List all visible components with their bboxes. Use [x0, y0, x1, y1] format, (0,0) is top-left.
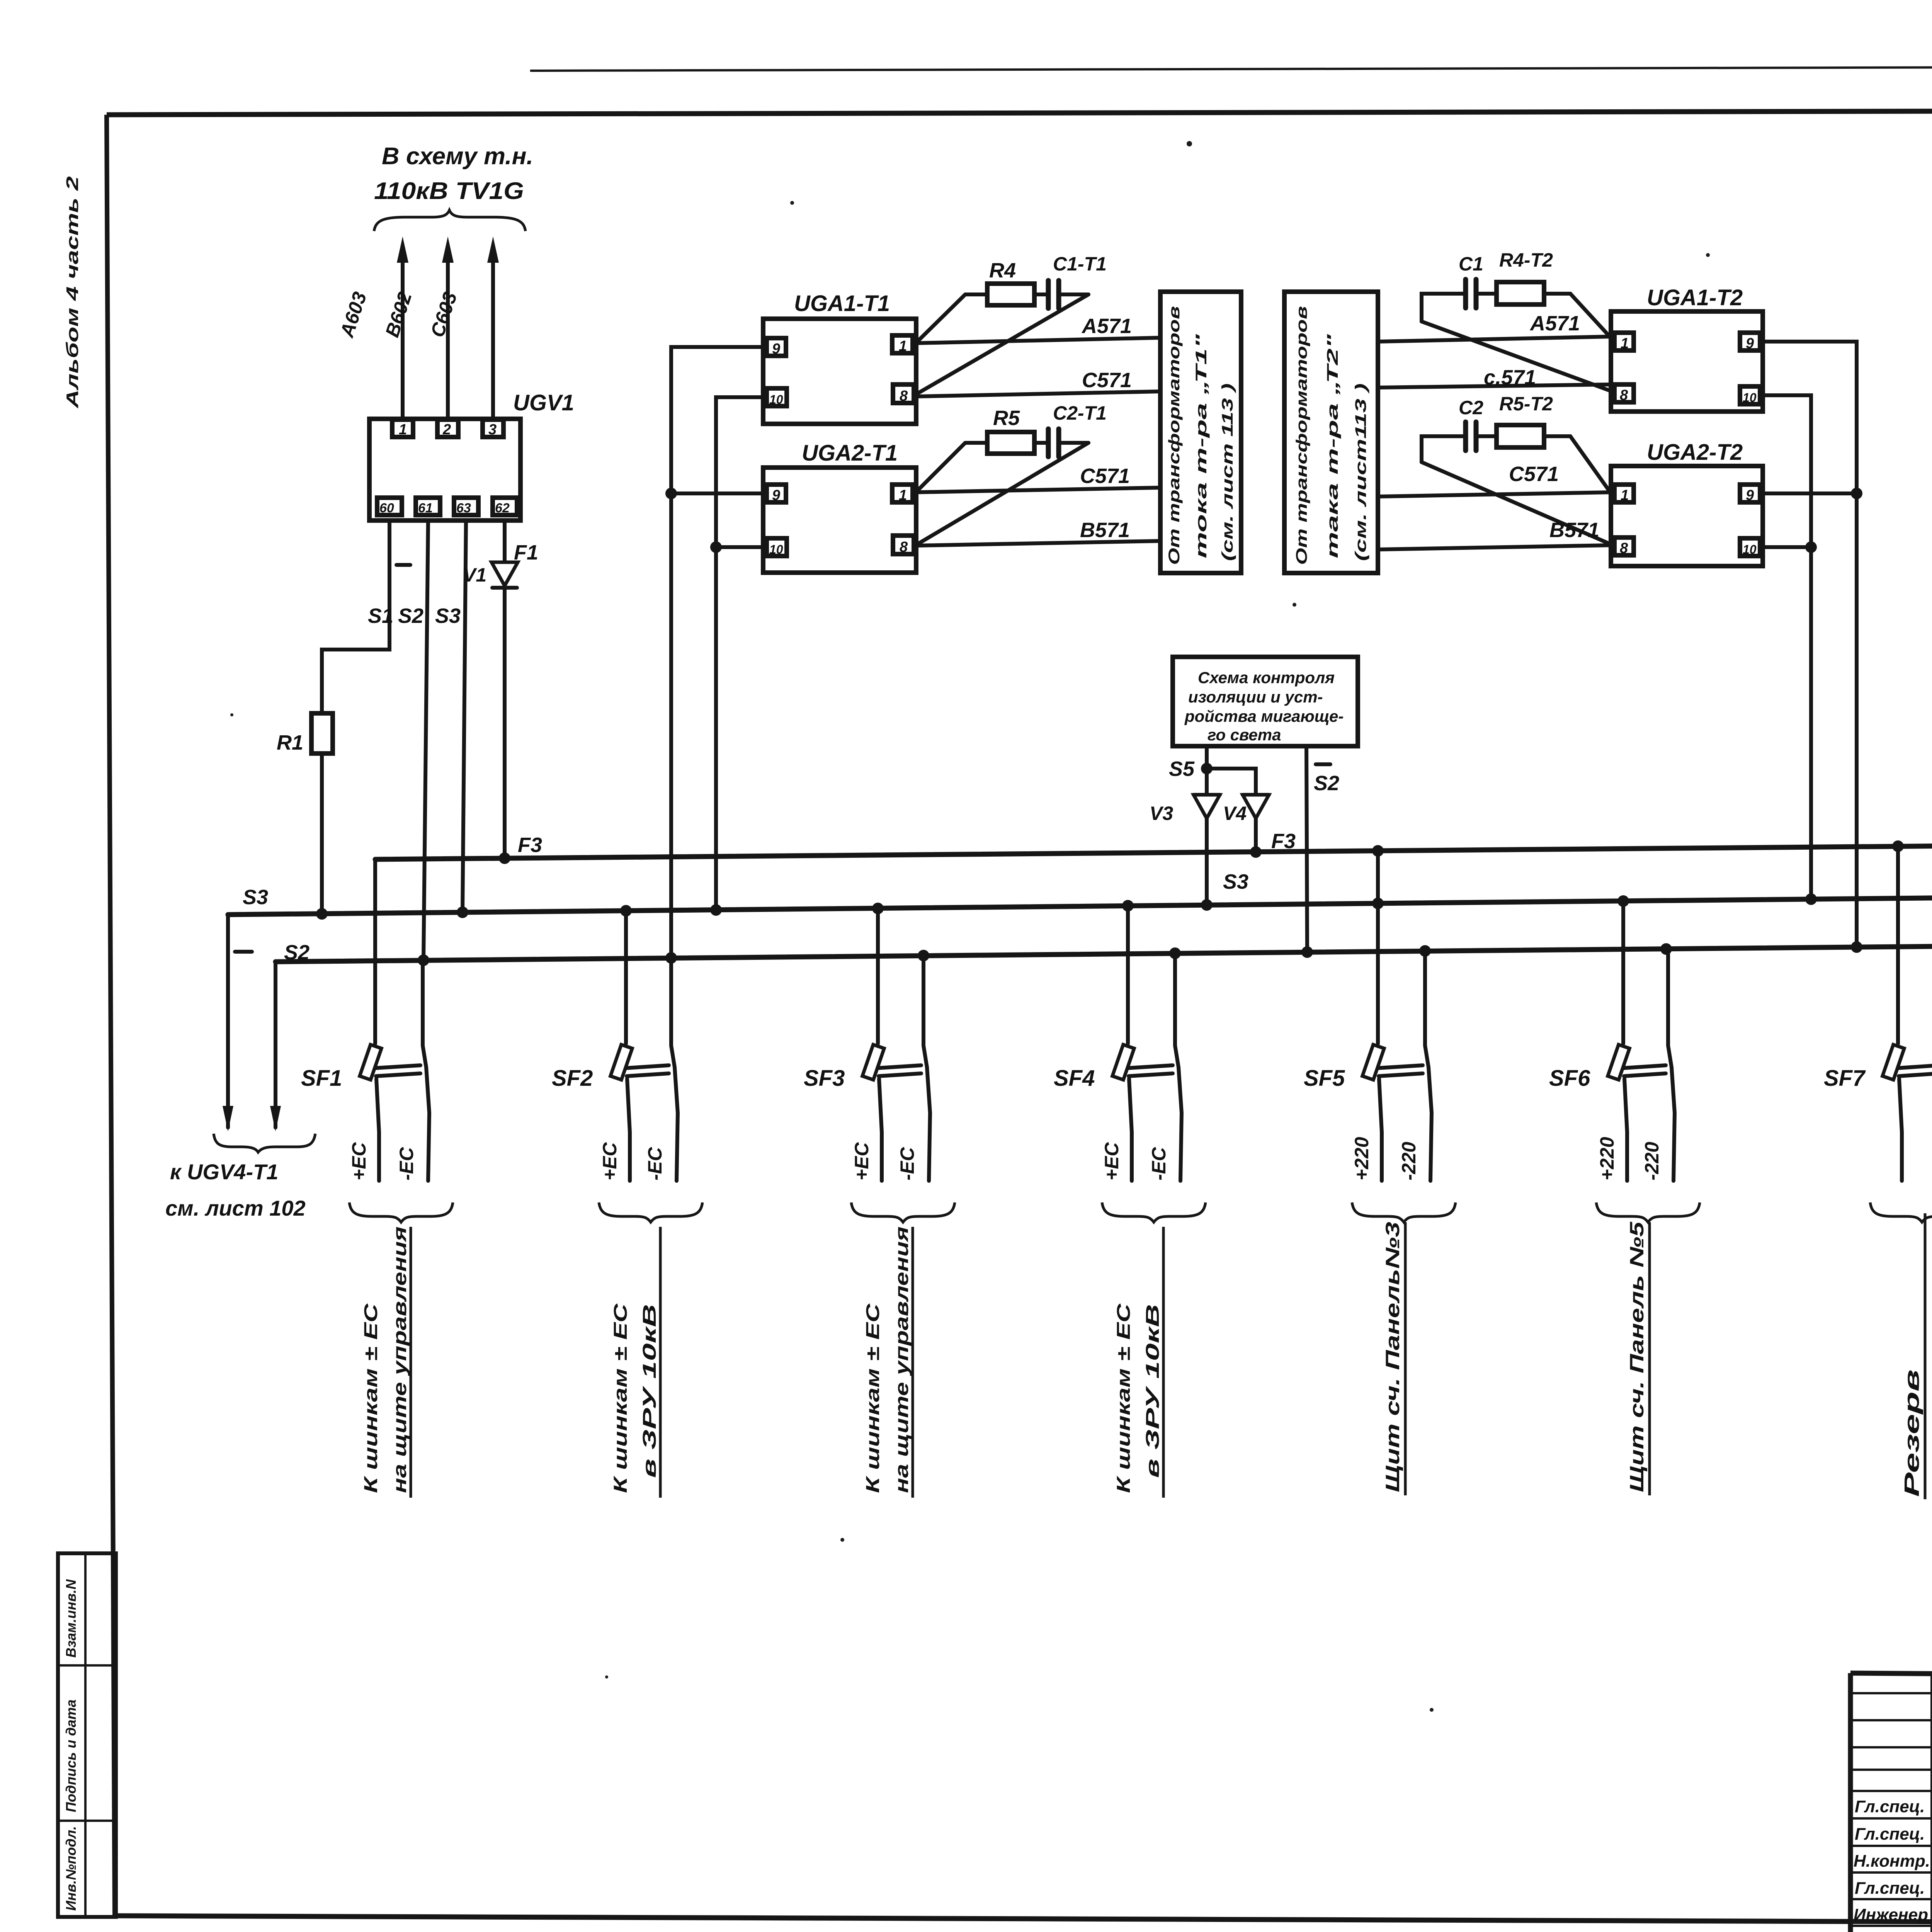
svg-text:V4: V4: [1223, 803, 1247, 824]
-S2 bus left end down to arrow: [274, 962, 277, 1128]
relay block UGA1-T2: [1611, 311, 1763, 412]
wire UGA1-T1 pin9 left: [671, 347, 767, 958]
svg-text:Гл.спец.: Гл.спец.: [1855, 1879, 1925, 1898]
resistor R5: [987, 432, 1034, 454]
svg-text:8: 8: [1620, 387, 1628, 403]
circuit breaker SF6: [1549, 901, 1675, 1181]
wire C2 left corner: [1422, 436, 1466, 462]
node: UGA-T1 pin10 wire joins bus S3: [710, 904, 722, 916]
svg-text:UGA2-Т2: UGA2-Т2: [1647, 440, 1743, 465]
wire UGA2-T2 pin10 right: [1760, 545, 1811, 549]
svg-text:-ЕС: -ЕС: [396, 1147, 417, 1180]
wire R1 to S3 bus: [320, 753, 324, 914]
bus S3: [228, 894, 1932, 915]
node: SF5 right wire joins bus -S2: [1419, 945, 1431, 957]
circuit breaker SF4: [1054, 906, 1182, 1181]
node S5 junction: [1201, 763, 1213, 774]
node: UGV1 pin63 wire joins bus S3: [457, 906, 468, 918]
svg-text:С2-Т1: С2-Т1: [1053, 402, 1107, 424]
wire UGA1-T2 pin10 right: [1760, 395, 1811, 899]
svg-text:61: 61: [418, 501, 433, 515]
node: SF7 left wire joins bus F3: [1892, 840, 1904, 852]
svg-text:С1: С1: [1459, 253, 1483, 275]
svg-text:в ЗРУ 10кВ: в ЗРУ 10кВ: [1143, 1304, 1163, 1478]
svg-text:Щит сч. Панель №5: Щит сч. Панель №5: [1626, 1221, 1648, 1492]
wire R5 to C2-T1: [1034, 441, 1048, 445]
svg-text:+ЕС: +ЕС: [348, 1142, 370, 1180]
circuit breaker SF5: [1304, 851, 1432, 1181]
relay block UGA2-T2: [1611, 466, 1763, 566]
svg-text:9: 9: [772, 341, 780, 357]
svg-text:9: 9: [1746, 487, 1754, 503]
brace under SF4: [1102, 1202, 1206, 1222]
svg-text:+ЕС: +ЕС: [1101, 1142, 1122, 1180]
resistor R4: [987, 284, 1034, 305]
wire V3 to S3 bus: [1205, 818, 1209, 905]
circuit breaker SF2: [552, 911, 678, 1181]
svg-text:-220: -220: [1641, 1142, 1663, 1180]
svg-text:8: 8: [900, 539, 908, 555]
svg-text:С2: С2: [1459, 397, 1483, 418]
svg-text:Щит сч. Панель№3: Щит сч. Панель№3: [1382, 1222, 1403, 1492]
node: SF2 left wire joins bus S3: [620, 905, 632, 917]
wire B602 up from UGV1 pin2: [446, 258, 450, 419]
svg-text:R4: R4: [989, 259, 1016, 282]
wire V4 to F3 bus: [1254, 818, 1258, 852]
wire A603 up from UGV1 pin1: [401, 258, 405, 419]
node: SF6 right wire joins bus -S2: [1660, 943, 1672, 955]
svg-text:8: 8: [900, 388, 908, 404]
svg-text:(см. лист 113 ): (см. лист 113 ): [1219, 383, 1236, 561]
svg-text:3: 3: [488, 422, 497, 438]
diode V3: [1150, 795, 1220, 824]
label -S2 left: [235, 941, 310, 964]
brace under SF7: [1870, 1202, 1932, 1222]
node: S2bar wire joins bus -S2: [1301, 946, 1313, 958]
wire pin62 down through V1 to F3 bus: [503, 520, 507, 858]
svg-text:на щите управления: на щите управления: [892, 1226, 912, 1493]
brace under left arrows: [214, 1134, 315, 1152]
svg-text:+ЕС: +ЕС: [851, 1142, 872, 1180]
node: SF4 right wire joins bus -S2: [1169, 947, 1181, 959]
diagonal C2-T1 to UGA2-T1 pin8: [915, 443, 1088, 546]
svg-text:R1: R1: [277, 731, 303, 754]
svg-text:Гл.спец.: Гл.спец.: [1855, 1797, 1925, 1816]
svg-text:тока т-ра „Т1": тока т-ра „Т1": [1193, 333, 1210, 558]
signature table verticals: [1930, 1674, 1932, 1932]
svg-text:Подпись и дата: Подпись и дата: [63, 1699, 79, 1812]
svg-text:SF7: SF7: [1824, 1066, 1866, 1091]
wire from pin 60 with jog to R1: [322, 520, 389, 713]
svg-text:в ЗРУ 10кВ: в ЗРУ 10кВ: [639, 1304, 660, 1478]
wire C603 up from UGV1 pin3: [491, 258, 495, 419]
capacitor C1: [1466, 279, 1497, 308]
svg-text:S1: S1: [368, 604, 393, 628]
svg-text:10: 10: [1743, 391, 1757, 405]
svg-text:S3: S3: [1223, 870, 1248, 893]
svg-text:От трансформаторов: От трансформаторов: [1166, 306, 1183, 565]
net B571 to UGA2-T2 pin8: [1378, 545, 1611, 549]
wire UGA2-T1 pin10 left: [716, 545, 767, 549]
svg-text:1: 1: [399, 422, 407, 438]
svg-text:Схема контроля: Схема контроля: [1198, 668, 1335, 687]
svg-text:Взам.инв.N: Взам.инв.N: [63, 1579, 79, 1658]
svg-text:Н.контр.: Н.контр.: [1854, 1852, 1930, 1871]
svg-text:S3: S3: [243, 886, 268, 909]
brace under SF5: [1352, 1202, 1456, 1222]
svg-text:V1: V1: [463, 564, 486, 586]
wire UGA1-T1 pin10 left: [716, 397, 767, 910]
brace under SF6: [1596, 1202, 1700, 1222]
svg-text:(см. лист113 ): (см. лист113 ): [1352, 383, 1369, 561]
diode V1: [463, 562, 518, 588]
svg-text:Инженер: Инженер: [1854, 1905, 1928, 1924]
net C571 from UGA1-T1 pin8: [916, 391, 1160, 396]
circuit breaker SF7: [1824, 846, 1932, 1181]
svg-text:R4-Т2: R4-Т2: [1499, 249, 1553, 271]
relay block UGA2-T1: [763, 468, 916, 573]
node: UGA-T2 pin10 wire joins bus S3: [1805, 893, 1817, 905]
label S2 with overbar middle: [1314, 764, 1339, 795]
wire branch to V4: [1207, 769, 1256, 795]
wire UGA2-T1 pin9 left: [671, 492, 767, 495]
svg-text:F3: F3: [518, 833, 542, 857]
node: SF3 left wire joins bus S3: [872, 903, 884, 914]
junction pin10 wires: [710, 541, 722, 553]
resistor R4-T2: [1497, 282, 1544, 304]
svg-text:V3: V3: [1150, 803, 1173, 824]
bus -S2: [276, 943, 1932, 962]
junction pin9 wires: [665, 488, 677, 499]
svg-text:В схему т.н.: В схему т.н.: [382, 143, 533, 170]
junction pin10 wires T2: [1805, 541, 1817, 553]
svg-text:В571: В571: [1549, 519, 1599, 542]
wire R5-T2 right + diagonal to UGA2-T2 pin1: [1544, 436, 1610, 492]
svg-text:А571: А571: [1081, 315, 1132, 338]
node: V1 wire joins bus F3: [499, 852, 510, 864]
node: SF4 left wire joins bus S3: [1122, 900, 1134, 912]
box От трансформаторов тока т-ра Т1: [1160, 292, 1241, 573]
node: UGA-T2 pin9 wire joins bus -S2: [1851, 941, 1862, 953]
svg-text:+220: +220: [1596, 1137, 1618, 1180]
svg-text:К шинкам ± ЕС: К шинкам ± ЕС: [863, 1303, 883, 1493]
svg-text:UGA1-Т2: UGA1-Т2: [1647, 285, 1743, 310]
svg-text:UGA1-Т1: UGA1-Т1: [794, 291, 890, 316]
svg-text:1: 1: [899, 487, 907, 503]
junction pin9 wires T2: [1851, 488, 1862, 499]
S3 bus left end down to arrow: [226, 915, 230, 1128]
svg-text:2: 2: [442, 422, 451, 438]
net A571 to UGA1-T2 pin1: [1378, 337, 1611, 342]
node: SF6 left wire joins bus S3: [1617, 895, 1629, 907]
svg-text:К шинкам ± ЕС: К шинкам ± ЕС: [1114, 1303, 1134, 1493]
svg-text:110кВ TV1G: 110кВ TV1G: [374, 178, 524, 204]
svg-text:60: 60: [379, 501, 394, 515]
svg-text:1: 1: [899, 338, 907, 354]
diagonal pin1 to R4 branch: [917, 294, 965, 342]
svg-text:изоляции и уст-: изоляции и уст-: [1188, 688, 1323, 706]
brace under SF2: [599, 1202, 702, 1222]
svg-text:10: 10: [1743, 543, 1757, 556]
diagonal UGA2-T1 pin1 to R5 branch: [917, 443, 965, 491]
label minus over S2: [396, 563, 410, 567]
node: UGV1 pin61 / SF1 right wire joins bus -S2: [418, 954, 429, 966]
svg-text:63: 63: [456, 501, 471, 515]
capacitor C2-T1: [1048, 429, 1088, 457]
brace over TV1G arrows: [374, 210, 526, 231]
net A571 from UGA1-T1 pin1: [916, 338, 1160, 343]
svg-text:С571: С571: [1082, 369, 1132, 392]
wire UGA1-T2 pin9 right: [1760, 342, 1857, 947]
brace under SF3: [851, 1202, 955, 1222]
wire UGA2-T2 pin9 right: [1760, 492, 1857, 495]
capacitor C2: [1466, 422, 1497, 451]
svg-text:S2: S2: [398, 604, 423, 628]
signature table rows: [1850, 1692, 1932, 1694]
svg-text:От трансформаторов: От трансформаторов: [1293, 306, 1310, 565]
svg-text:R5-Т2: R5-Т2: [1499, 393, 1553, 415]
net C571 to UGA2-T2 pin1: [1378, 492, 1611, 497]
svg-text:ройства мигающе-: ройства мигающе-: [1184, 707, 1344, 725]
diagonal C1-T1 to pin8: [915, 294, 1088, 395]
svg-text:SF4: SF4: [1054, 1066, 1095, 1091]
title block: [1850, 1673, 1932, 1932]
brace under SF1: [349, 1202, 453, 1222]
svg-text:SF5: SF5: [1304, 1066, 1345, 1091]
svg-text:+ЕС: +ЕС: [599, 1142, 621, 1180]
node: SF3 right wire joins bus -S2: [918, 950, 929, 961]
svg-text:С1-Т1: С1-Т1: [1053, 253, 1107, 275]
svg-text:10: 10: [769, 393, 783, 406]
svg-text:см. лист 102: см. лист 102: [165, 1196, 306, 1220]
node: V4 wire joins bus F3: [1250, 846, 1262, 858]
svg-text:-ЕС: -ЕС: [1148, 1147, 1170, 1180]
svg-text:Альбом 4 часть 2: Альбом 4 часть 2: [63, 176, 82, 408]
svg-text:1: 1: [1621, 487, 1629, 503]
diode V4: [1223, 795, 1269, 824]
capacitor C1-T1: [1048, 281, 1088, 308]
box От трансформаторов тока т-ра Т2: [1284, 292, 1378, 573]
sheet outer top edge line: [530, 66, 1932, 71]
svg-text:SF2: SF2: [552, 1066, 593, 1091]
node: F3-S3 link and SF5 left wire join bus S3: [1372, 898, 1384, 909]
svg-text:Инв.№подл.: Инв.№подл.: [63, 1826, 79, 1911]
wire R4-T2 right + diagonal to pin1: [1544, 294, 1610, 337]
svg-text:+220: +220: [1351, 1137, 1372, 1180]
svg-text:9: 9: [1746, 335, 1754, 352]
svg-text:к UGV4-Т1: к UGV4-Т1: [170, 1160, 278, 1184]
svg-text:-ЕС: -ЕС: [644, 1147, 666, 1180]
terminal block UGV1: [369, 419, 520, 520]
wire pin61 down to -S2 bus: [423, 520, 428, 960]
relay block UGA1-T1: [763, 319, 916, 424]
svg-text:62: 62: [495, 501, 510, 515]
svg-text:В571: В571: [1080, 519, 1130, 542]
svg-text:С571: С571: [1080, 464, 1130, 488]
title block top edge: [1850, 1673, 1932, 1677]
svg-text:UGV1: UGV1: [513, 390, 574, 415]
box Схема контроля изоляции: [1173, 657, 1358, 746]
node: UGA-T1 pin9 / SF2 right wire joins bus -S2: [665, 952, 677, 964]
svg-text:-ЕС: -ЕС: [896, 1147, 918, 1180]
svg-text:SF1: SF1: [301, 1066, 342, 1091]
wire C1 left corner: [1422, 294, 1466, 321]
node: F3-S3 link joins bus F3: [1372, 845, 1384, 857]
svg-text:R5: R5: [993, 406, 1020, 430]
circuit breaker SF1: [301, 859, 429, 1181]
svg-text:c.571: c.571: [1484, 366, 1536, 389]
svg-text:SF3: SF3: [804, 1066, 845, 1091]
diagonal C1 to UGA1-T2 pin8: [1422, 321, 1612, 391]
svg-text:S2: S2: [1314, 772, 1339, 795]
svg-text:така т-ра „Т2": така т-ра „Т2": [1324, 333, 1341, 558]
svg-text:8: 8: [1620, 540, 1628, 556]
svg-text:S2: S2: [284, 941, 310, 964]
svg-text:С571: С571: [1509, 463, 1559, 486]
svg-text:Гл.спец.: Гл.спец.: [1855, 1825, 1925, 1844]
net c.571 to UGA1-T2 pin8: [1378, 384, 1611, 388]
svg-text:10: 10: [769, 543, 783, 556]
wire S5 from box down to V3: [1205, 746, 1209, 795]
svg-text:го света: го света: [1207, 726, 1281, 744]
circuit breaker SF3: [804, 908, 930, 1181]
svg-text:S3: S3: [435, 604, 461, 628]
bottom-left margin stamp block: [58, 1553, 116, 1917]
svg-text:на щите управления: на щите управления: [390, 1226, 410, 1493]
svg-text:-220: -220: [1398, 1142, 1420, 1180]
net B571 from UGA2-T1 pin8: [916, 541, 1160, 546]
node: R1 wire joins bus S3: [316, 908, 328, 920]
svg-text:А571: А571: [1529, 312, 1580, 335]
svg-text:Резерв: Резерв: [1900, 1369, 1923, 1497]
svg-text:9: 9: [772, 487, 780, 503]
svg-text:К шинкам ± ЕС: К шинкам ± ЕС: [611, 1303, 631, 1493]
wire S2bar from box down to -S2 bus: [1306, 746, 1307, 952]
svg-text:SF6: SF6: [1549, 1066, 1590, 1091]
resistor R1: [311, 713, 333, 753]
wire R4 to C1-T1: [1034, 293, 1048, 296]
wire pin63 down to S3 bus: [463, 520, 466, 912]
svg-text:1: 1: [1621, 335, 1629, 352]
svg-text:К шинкам ± ЕС: К шинкам ± ЕС: [361, 1303, 381, 1493]
node: V3 wire joins bus S3: [1201, 899, 1213, 911]
bus F3: [375, 845, 1932, 859]
diagonal C2 to UGA2-T2 pin8: [1422, 462, 1612, 545]
svg-text:S5: S5: [1169, 757, 1195, 781]
svg-text:UGA2-Т1: UGA2-Т1: [802, 440, 898, 466]
resistor R5-T2: [1497, 425, 1544, 447]
net C571 from UGA2-T1 pin1: [916, 488, 1160, 492]
